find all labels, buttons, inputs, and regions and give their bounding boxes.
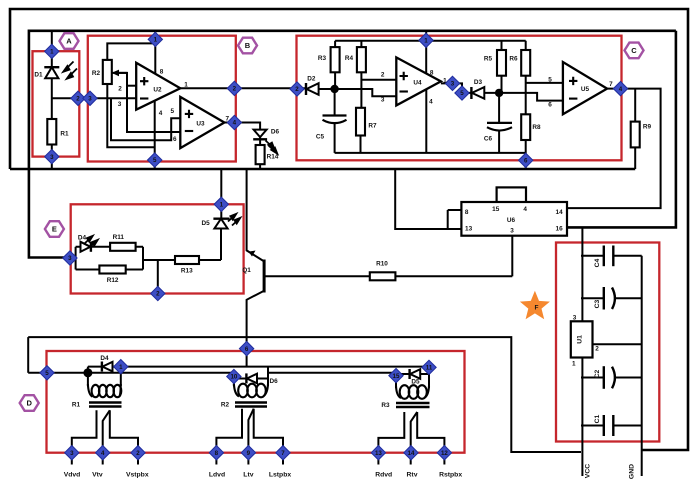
svg-text:3: 3 (510, 227, 514, 234)
svg-text:4: 4 (619, 86, 623, 93)
svg-text:3: 3 (573, 315, 577, 322)
svg-text:C1: C1 (594, 414, 601, 423)
svg-text:R1: R1 (60, 131, 69, 138)
svg-text:D5: D5 (202, 220, 211, 227)
svg-text:2: 2 (76, 96, 80, 103)
svg-text:14: 14 (408, 450, 415, 457)
svg-text:3: 3 (68, 255, 72, 262)
svg-text:5: 5 (548, 77, 552, 84)
svg-text:13: 13 (375, 450, 382, 457)
svg-text:R5: R5 (484, 55, 493, 62)
svg-text:C: C (631, 46, 637, 55)
svg-text:7: 7 (281, 450, 285, 457)
svg-text:Rdvd: Rdvd (375, 472, 392, 479)
svg-text:2: 2 (136, 450, 140, 457)
svg-text:VCC: VCC (585, 464, 592, 478)
svg-text:GND: GND (629, 464, 636, 479)
svg-text:Ltv: Ltv (243, 472, 253, 479)
svg-text:6: 6 (524, 158, 528, 165)
svg-text:4: 4 (233, 120, 237, 127)
svg-text:U4: U4 (413, 80, 422, 87)
svg-text:A: A (66, 37, 72, 46)
svg-text:5: 5 (171, 108, 175, 115)
svg-text:D4: D4 (78, 235, 87, 242)
svg-text:R11: R11 (113, 234, 125, 241)
svg-text:5: 5 (460, 90, 464, 97)
svg-text:U1: U1 (577, 335, 584, 344)
svg-text:Vdvd: Vdvd (64, 472, 81, 479)
svg-text:U2: U2 (153, 87, 162, 94)
svg-text:6: 6 (245, 346, 249, 353)
svg-text:1: 1 (443, 77, 447, 84)
svg-text:D: D (26, 399, 32, 408)
svg-text:3: 3 (50, 154, 54, 161)
svg-text:C5: C5 (316, 134, 325, 141)
svg-text:Vtv: Vtv (92, 472, 103, 479)
svg-text:1: 1 (572, 361, 576, 368)
svg-text:D3: D3 (474, 79, 483, 86)
svg-text:7: 7 (226, 116, 230, 123)
svg-text:R1: R1 (72, 402, 81, 409)
svg-text:10: 10 (230, 374, 237, 381)
svg-text:U3: U3 (196, 121, 205, 128)
svg-text:12: 12 (441, 450, 448, 457)
svg-text:1: 1 (50, 49, 54, 56)
svg-text:9: 9 (247, 450, 251, 457)
svg-text:2: 2 (595, 346, 599, 353)
svg-text:6: 6 (548, 101, 552, 108)
svg-text:4: 4 (429, 99, 433, 106)
svg-text:6: 6 (173, 136, 177, 143)
svg-text:Ldvd: Ldvd (209, 472, 225, 479)
svg-text:1: 1 (184, 82, 188, 89)
svg-text:3: 3 (451, 81, 455, 88)
svg-text:R7: R7 (368, 123, 377, 130)
svg-text:13: 13 (465, 225, 473, 232)
svg-text:16: 16 (556, 225, 564, 232)
svg-text:C2: C2 (594, 369, 601, 378)
svg-text:R2: R2 (221, 402, 230, 409)
svg-text:D1: D1 (34, 72, 43, 79)
svg-text:R8: R8 (532, 124, 541, 131)
svg-text:Rstpbx: Rstpbx (439, 472, 462, 479)
svg-text:B: B (245, 41, 251, 50)
svg-text:4: 4 (159, 110, 163, 117)
svg-text:8: 8 (160, 69, 164, 76)
svg-text:4: 4 (523, 206, 527, 213)
svg-text:R14: R14 (267, 154, 279, 161)
svg-text:Rtv: Rtv (407, 472, 418, 479)
svg-text:D4: D4 (100, 355, 109, 362)
svg-text:7: 7 (609, 81, 613, 88)
svg-text:2: 2 (156, 291, 160, 298)
svg-text:2: 2 (295, 86, 299, 93)
svg-text:8: 8 (465, 209, 469, 216)
svg-text:8: 8 (430, 70, 434, 77)
svg-text:C4: C4 (594, 258, 601, 267)
svg-text:R3: R3 (318, 55, 327, 62)
svg-text:R10: R10 (376, 261, 388, 268)
svg-text:2: 2 (118, 86, 122, 93)
svg-text:3: 3 (118, 101, 122, 108)
svg-text:Q1: Q1 (242, 267, 251, 274)
svg-text:C6: C6 (484, 136, 493, 143)
svg-text:4: 4 (101, 450, 105, 457)
svg-text:Lstpbx: Lstpbx (269, 472, 291, 479)
svg-text:1: 1 (424, 38, 428, 45)
svg-text:Vstpbx: Vstpbx (126, 472, 149, 479)
svg-text:R3: R3 (381, 402, 390, 409)
svg-text:1: 1 (220, 202, 224, 209)
svg-text:U5: U5 (581, 86, 590, 93)
svg-text:U6: U6 (507, 217, 516, 224)
svg-text:3: 3 (381, 96, 385, 103)
svg-text:D2: D2 (307, 76, 316, 83)
svg-text:D6: D6 (271, 129, 280, 136)
svg-text:R12: R12 (107, 277, 119, 284)
svg-text:R4: R4 (345, 55, 354, 62)
svg-text:R6: R6 (509, 55, 518, 62)
svg-text:R2: R2 (92, 70, 101, 77)
svg-text:3: 3 (70, 450, 74, 457)
svg-text:15: 15 (492, 206, 500, 213)
svg-text:R13: R13 (181, 267, 193, 274)
svg-text:C3: C3 (594, 299, 601, 308)
svg-text:F: F (535, 305, 539, 312)
svg-text:5: 5 (45, 370, 49, 377)
svg-text:D6: D6 (270, 378, 279, 385)
svg-text:D5: D5 (411, 379, 420, 386)
svg-text:8: 8 (215, 450, 219, 457)
svg-text:1: 1 (154, 37, 158, 44)
svg-text:5: 5 (153, 157, 157, 164)
svg-text:2: 2 (233, 86, 237, 93)
svg-text:1: 1 (119, 364, 123, 371)
svg-text:E: E (52, 225, 57, 234)
svg-text:14: 14 (556, 209, 564, 216)
svg-text:R9: R9 (643, 124, 652, 131)
svg-text:3: 3 (88, 96, 92, 103)
svg-text:15: 15 (393, 373, 400, 380)
svg-text:2: 2 (381, 72, 385, 79)
svg-text:11: 11 (426, 365, 433, 372)
